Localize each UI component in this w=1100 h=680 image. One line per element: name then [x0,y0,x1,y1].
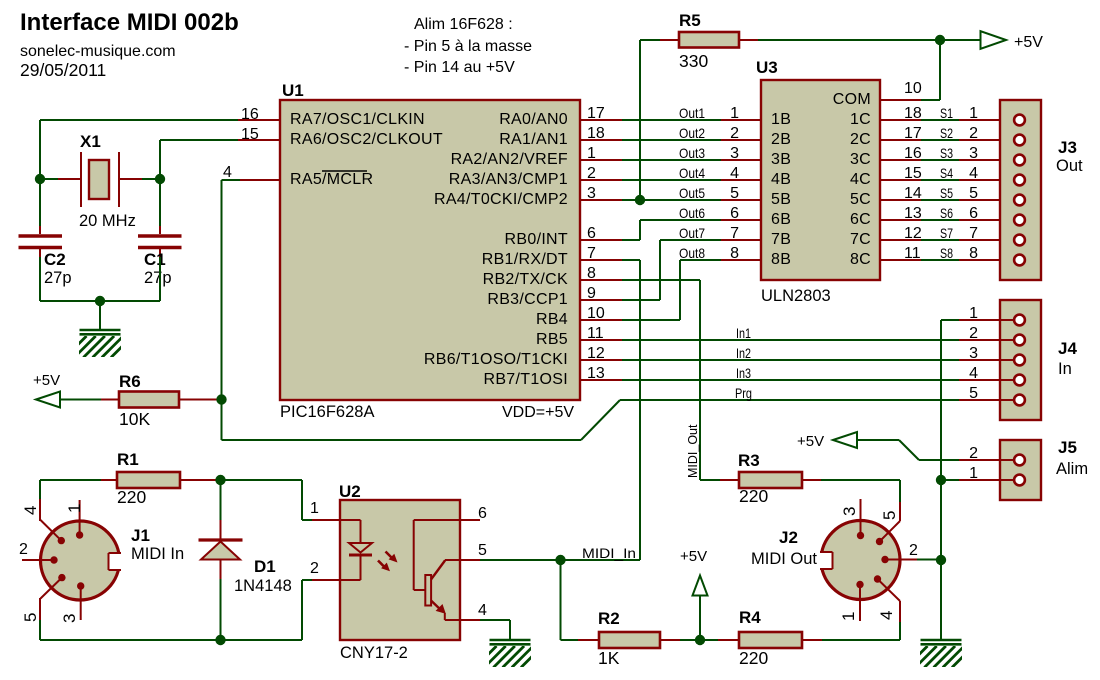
net label S2 [940,125,953,141]
U2 pin 1 stub [312,519,340,521]
ground crystal [65,330,133,358]
IC U3 part label [761,287,831,305]
subtitle date [20,60,106,80]
U1 pin 16 stub [238,119,280,121]
net label S5 [940,185,953,201]
wire rail to U2 pin2 [302,580,312,640]
svg-text:9: 9 [587,285,596,302]
U1 pin RB4 label [536,311,568,328]
svg-text:5: 5 [21,613,40,622]
svg-text:17: 17 [904,125,922,142]
power +5V arrow mid [680,548,708,596]
J4 pin 4 stub [959,379,1015,381]
resistor R6 [101,392,179,408]
U2 pin 2 number [310,560,319,577]
svg-text:C2: C2 [44,250,66,269]
U3 pin 5 stub [721,199,761,201]
U1 pin 18 number [587,125,605,142]
wire J1 to R1 [40,479,101,481]
IC U1 body [280,100,580,400]
svg-text:RA4/T0CKI/CMP2: RA4/T0CKI/CMP2 [434,191,568,208]
J2 pad 3 [857,499,864,539]
svg-text:7C: 7C [850,231,871,248]
wire R2 drop [561,560,579,640]
J4 pin 5 number [969,385,978,402]
U1 pin 1 number [587,145,596,162]
U3 pin 2 stub [721,139,761,141]
power +5V arrow top [981,31,1044,51]
crystal X1 [58,152,142,207]
J3 pin 8 number [969,245,978,262]
svg-text:6: 6 [730,205,739,222]
J3 pad 8 [1014,255,1025,266]
svg-text:Out2: Out2 [679,125,705,141]
svg-text:18: 18 [904,105,922,122]
wire J4 pin1 gnd [941,319,959,321]
U1 pin 3 number [587,185,596,202]
svg-text:3C: 3C [850,151,871,168]
wire pin15 to crystal [160,140,238,179]
net label Out5 [679,185,705,201]
J4 pin 2 stub [959,339,1015,341]
note alim line 2 [404,38,532,55]
svg-text:MIDI Out: MIDI Out [751,550,817,568]
J3 pad 4 [1014,175,1025,186]
svg-text:1: 1 [969,105,978,122]
U3 pin 3 number [730,145,739,162]
svg-text:10: 10 [587,305,605,322]
svg-text:Prg: Prg [735,385,752,401]
svg-text:15: 15 [241,126,259,143]
svg-text:Out6: Out6 [679,205,705,221]
wire S3 [921,159,959,161]
wire Prg run [620,399,959,401]
wire gnd vertical [940,320,942,640]
node D1 rail [215,635,225,645]
U3 pin 14 number [904,185,922,202]
diode D1 [199,520,243,579]
U1 MCLR overline [322,170,367,172]
wire C1 top [159,179,161,226]
svg-text:RA2/AN2/VREF: RA2/AN2/VREF [451,151,568,168]
svg-text:COM: COM [833,91,871,108]
U3 pin 5 number [730,185,739,202]
svg-text:+5V: +5V [33,372,60,389]
U1 pin 12 stub [580,359,622,361]
J1 pad 4 [40,499,65,544]
U3 pin 17 number [904,125,922,142]
wire Out1 [622,119,721,121]
U1 pin RA3 label [449,171,568,188]
U3 8C label [850,251,871,268]
U3 7B label [771,231,791,248]
J3 pin 7 stub [959,239,1015,241]
J3 pin 6 stub [959,219,1015,221]
svg-text:5: 5 [730,185,739,202]
svg-text:17: 17 [587,105,605,122]
svg-text:S6: S6 [940,205,953,221]
U1 pin 15 stub [238,139,280,141]
svg-text:2: 2 [730,125,739,142]
note alim line 1 [414,16,513,33]
U1 pin 7 number [587,245,596,262]
U1 pin RA1 label [499,131,568,148]
wire C1 bottom [159,257,161,301]
svg-text:S4: S4 [940,165,953,181]
svg-text:In3: In3 [736,365,751,381]
wire S2 [921,139,959,141]
U1 pin 13 stub [580,379,622,381]
wire Out2 [622,139,721,141]
IC U3 body [761,80,880,280]
U1 pin 17 number [587,105,605,122]
J3 pin 5 number [969,185,978,202]
optocoupler U2 name [339,482,361,501]
svg-text:3: 3 [730,145,739,162]
node crystal left [35,174,45,184]
svg-text:1C: 1C [850,111,871,128]
U2 pin 6 stub [460,519,480,521]
wire S8 [921,259,959,261]
wire +5V to R6 [60,399,101,401]
U1 pin RA2 label [451,151,568,168]
optocoupler U2 body [340,500,460,640]
diode D1 value [234,577,292,595]
svg-text:RA6/OSC2/CLKOUT: RA6/OSC2/CLKOUT [290,131,443,148]
svg-text:1: 1 [839,612,858,621]
U3 pin 7 number [730,225,739,242]
svg-text:C1: C1 [144,250,166,269]
svg-text:Out3: Out3 [679,145,705,161]
wire R1 node to D1 [220,480,222,520]
U3 pin 11 number [904,245,921,262]
svg-text:6B: 6B [771,211,791,228]
connector J2 name [779,528,798,547]
svg-text:13: 13 [904,205,922,222]
wire gnd stem [99,301,101,330]
net label Out2 [679,125,705,141]
J2 pad 4 [874,575,900,622]
power +5V arrow J5 [797,432,857,450]
svg-text:Alim 16F628 :: Alim 16F628 : [414,16,513,33]
wire MCLR pin4 [222,180,241,440]
wire In2 [622,359,959,361]
U3 1B label [771,111,791,128]
J1 pad 5 [40,574,66,620]
wire D1 to rail [220,579,222,640]
resistor R5 value [679,51,708,71]
wire MIDI_In vertical [622,260,640,560]
svg-text:VDD=+5V: VDD=+5V [502,404,574,421]
U1 pin 2 stub [580,179,622,181]
svg-text:16: 16 [241,106,259,123]
capacitor C1 name [144,250,166,269]
net label MIDI_In [582,545,636,561]
svg-text:5: 5 [969,185,978,202]
J5 pin 2 number [969,445,978,462]
svg-text:7: 7 [587,245,596,262]
U3 2C label [850,131,871,148]
optocoupler U2 part [340,644,408,662]
capacitor C1 value [144,269,172,287]
svg-text:MIDI_In: MIDI_In [582,545,636,561]
J3 pin 1 number [969,105,978,122]
svg-text:5: 5 [880,511,899,520]
IC U1 part label [280,403,374,421]
J4 pin 2 number [969,325,978,342]
U3 pin 8 stub [721,259,761,261]
U1 pin 8 stub [580,279,622,281]
svg-text:15: 15 [904,165,922,182]
U2 pin 4 number [478,602,487,619]
svg-text:5: 5 [969,385,978,402]
net label Out3 [679,145,705,161]
svg-text:MIDI_Out: MIDI_Out [686,424,700,478]
svg-text:5: 5 [478,542,487,559]
U1 pin 18 stub [580,139,622,141]
svg-text:PIC16F628A: PIC16F628A [280,403,374,421]
svg-text:3: 3 [969,345,978,362]
wire Out5 [622,199,721,201]
J3 pad 7 [1014,235,1025,246]
svg-text:J1: J1 [131,526,150,545]
J3 pin 6 number [969,205,978,222]
resistor R6 name [119,372,141,391]
wire J2 pin2 gnd [917,559,941,561]
wire +5V to J5 pin2 [857,440,959,460]
resistor R2 name [598,609,620,628]
wire S6 [921,219,959,221]
svg-text:J3: J3 [1058,138,1077,157]
svg-text:+5V: +5V [1014,34,1043,51]
wire bottom rail [40,639,302,641]
svg-text:In: In [1058,360,1072,378]
U2 pin 5 number [478,542,487,559]
svg-text:4: 4 [730,165,739,182]
svg-text:6: 6 [587,225,596,242]
IC U3 name label [756,58,778,77]
wire pin16 to crystal [40,120,238,179]
net label S7 [940,225,953,241]
U3 pin 7 stub [721,239,761,241]
svg-text:+5V: +5V [797,433,824,450]
svg-text:1: 1 [65,504,84,513]
wire MIDI_Out to R3 [700,479,720,481]
wire +5V stem [699,596,701,641]
ground right [906,640,974,668]
resistor R5 [660,32,758,48]
net label Out6 [679,205,705,221]
J2 pad 1 [856,581,863,621]
resistor R4 value [739,648,768,668]
U2 LED arrow 2 [378,561,390,572]
J3 pad 2 [1014,135,1025,146]
svg-text:8: 8 [587,265,596,282]
J3 pad 6 [1014,215,1025,226]
U1 pin 13 number [587,365,605,382]
U3 pin 16 stub [880,159,921,161]
J4 pin 3 stub [959,359,1015,361]
U1 pin 12 number [587,345,605,362]
J3 pad 3 [1014,155,1025,166]
U1 pin 11 number [587,325,604,342]
svg-text:Out4: Out4 [679,165,705,181]
J2 pin 2 number [909,542,918,559]
net label In1 [736,325,751,341]
capacitor C1 [138,226,182,257]
svg-text:2: 2 [19,541,28,558]
U1 pin 8 number [587,265,596,282]
svg-text:2: 2 [909,542,918,559]
wire crystal left lead [40,178,58,180]
net label In2 [736,345,751,361]
svg-text:330: 330 [679,51,708,71]
net label Out8 [679,245,705,261]
svg-text:Out7: Out7 [679,225,705,241]
U3 5B label [771,191,791,208]
wire Out7 jog [622,240,721,300]
wire MIDI_Out vertical [622,280,700,480]
svg-text:Out1: Out1 [679,105,705,121]
J3 pin 3 stub [959,159,1015,161]
svg-text:R4: R4 [739,608,761,627]
J1 pad 2 [22,556,58,563]
net label S4 [940,165,953,181]
svg-text:8C: 8C [850,251,871,268]
U1 pin RB3 label [487,291,568,308]
U3 8B label [771,251,791,268]
svg-text:2: 2 [969,325,978,342]
wire R1 to U2 pin1 [221,480,313,520]
U3 pin 1 stub [721,119,761,121]
svg-text:20 MHz: 20 MHz [79,212,136,230]
svg-text:+5V: +5V [680,548,707,565]
U1 pin RA0 label [499,111,568,128]
svg-text:S5: S5 [940,185,953,201]
J4 pin 1 number [969,305,978,322]
svg-text:4C: 4C [850,171,871,188]
J2 pad 5 [876,502,900,545]
J1 pad 3 [77,582,84,620]
connector J2 body [819,521,901,600]
svg-text:CNY17-2: CNY17-2 [340,644,408,662]
U2 transistor [414,520,460,620]
svg-text:3B: 3B [771,151,791,168]
wire J1 pin4 up [39,480,41,499]
U1 pin 1 stub [580,159,622,161]
U1 pin RB1 label [482,251,568,268]
wire S7 [921,239,959,241]
U1 pin 11 stub [580,339,622,341]
J2 pin 1 number [839,612,858,621]
U1 pin RA7 label [290,111,425,128]
wire Out3 [622,159,721,161]
svg-text:2: 2 [310,560,319,577]
svg-text:4: 4 [21,506,40,515]
J5 pin 1 number [969,465,978,482]
U1 pin 3 stub [580,199,622,201]
svg-text:14: 14 [904,185,922,202]
svg-text:S2: S2 [940,125,953,141]
wire R5 left drop [640,40,660,200]
J2 pin 4 number [877,611,896,620]
U1 pin 2 number [587,165,596,182]
U3 pin 15 stub [880,179,921,181]
wire U2 pin4 gnd [480,620,510,640]
U3 pin 6 stub [721,219,761,221]
wire R4 to J2 pin4 [822,622,900,640]
U1 pin RB7 label [483,371,568,388]
J1 pin 3 number [60,614,79,623]
resistor R1 [101,472,221,488]
U3 pin 14 stub [880,199,921,201]
wire R3 to J2 pin5 [821,480,900,502]
svg-text:RB2/TX/CK: RB2/TX/CK [483,271,568,288]
svg-text:S8: S8 [940,245,953,261]
U3 6C label [850,211,871,228]
svg-text:8: 8 [730,245,739,262]
capacitor C2 value [44,269,72,287]
wire S1 [921,119,959,121]
U3 pin 17 stub [880,139,921,141]
svg-text:S1: S1 [940,105,953,121]
U2 pin 4 stub [460,619,480,621]
J5 pin 1 stub [959,479,1015,481]
U1 pin 4 stub [240,179,280,181]
wire Out6 jog [622,220,721,240]
U1 pin RA6 label [290,131,443,148]
J1 pad 1 [76,500,83,539]
wire MCLR diagonal [581,400,620,440]
U3 pin 11 stub [880,259,921,261]
connector J1 body [41,521,123,600]
resistor R1 value [117,487,146,507]
svg-text:Out5: Out5 [679,185,705,201]
wire gnd to J5 pin1 [941,479,959,481]
connector J5 label [1056,460,1088,478]
J4 pad 4 [1014,375,1025,386]
U2 LED arrow 1 [386,552,398,563]
svg-text:1: 1 [969,305,978,322]
U1 pin RB0 label [505,231,568,248]
node caps gnd [95,296,105,306]
svg-text:RA5/MCLR: RA5/MCLR [290,171,373,188]
svg-text:S3: S3 [940,145,953,161]
U3 pin 10 number [904,80,922,97]
svg-text:11: 11 [904,245,921,262]
J3 pin 3 number [969,145,978,162]
J1 pin 5 number [21,613,40,622]
U3 pin 12 stub [880,239,921,241]
wire COM drop [921,40,940,100]
svg-text:R1: R1 [117,450,139,469]
J4 pin 1 stub [959,319,1015,321]
net label S3 [940,145,953,161]
wire In1 [622,339,959,341]
U1 pin 15 number [241,126,259,143]
svg-text:13: 13 [587,365,605,382]
node gnd J2 [936,555,946,565]
U1 pin RB5 label [536,331,568,348]
J2 pin 5 number [880,511,899,520]
svg-text:8: 8 [969,245,978,262]
svg-text:16: 16 [904,145,922,162]
J3 pad 1 [1014,115,1025,126]
wire C2 bottom [39,257,41,301]
svg-text:4: 4 [223,164,232,181]
svg-text:In2: In2 [736,345,751,361]
capacitor C2 name [44,250,66,269]
